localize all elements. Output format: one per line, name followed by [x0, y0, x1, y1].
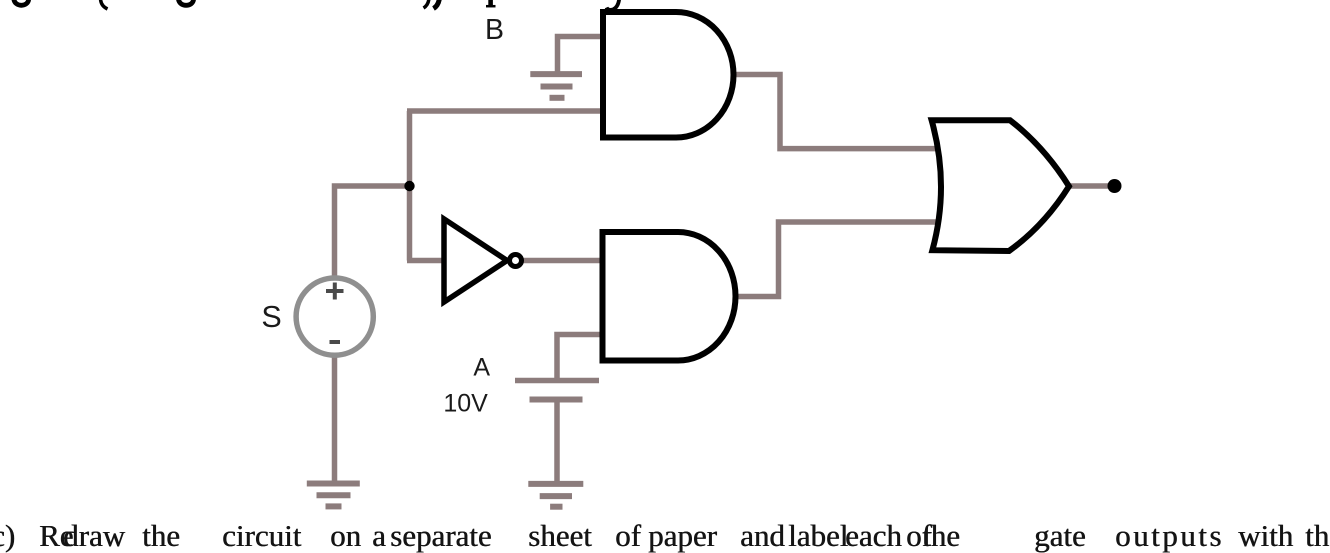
cropped top text line fragments (descenders of previous question line) [14, 0, 620, 10]
svg-text:B: B [485, 14, 504, 46]
wire junction vertical segment [407, 111, 413, 261]
ground symbol at input B [530, 74, 582, 98]
OR gate [932, 120, 1069, 251]
source S plus sign [326, 283, 344, 300]
cropped bottom question text line [0, 536, 1330, 538]
wire junction to top AND gate lower input [407, 108, 606, 114]
inverter (NOT gate) triangle [444, 219, 507, 302]
svg-text:S: S [261, 300, 281, 334]
svg-text:10V: 10V [443, 390, 488, 418]
source S minus sign [330, 340, 341, 344]
wire junction to inverter input [407, 258, 447, 264]
source S circle [296, 278, 373, 355]
ground symbol below battery A [528, 484, 583, 507]
wire battery A to ground [554, 400, 560, 483]
inverter output bubble [510, 255, 522, 267]
junction node dot [404, 181, 414, 191]
top AND gate [603, 12, 734, 138]
output node dot [1108, 179, 1122, 193]
ground symbol below source S [307, 484, 360, 507]
wire from source S top to junction [335, 186, 410, 278]
wire source S bottom to ground [332, 356, 338, 481]
wire B ground to top AND gate upper input [558, 37, 607, 76]
wire OR gate output [1066, 183, 1113, 189]
wire inverter output to bottom AND gate upper input [522, 258, 606, 264]
wire bottom AND gate output to OR gate lower input [733, 222, 936, 297]
svg-text:A: A [473, 354, 490, 382]
battery A plates [515, 381, 599, 400]
wire top AND gate output to OR gate upper input [731, 75, 936, 149]
wire battery A to bottom AND gate lower input [557, 335, 606, 379]
bottom AND gate [603, 232, 736, 361]
